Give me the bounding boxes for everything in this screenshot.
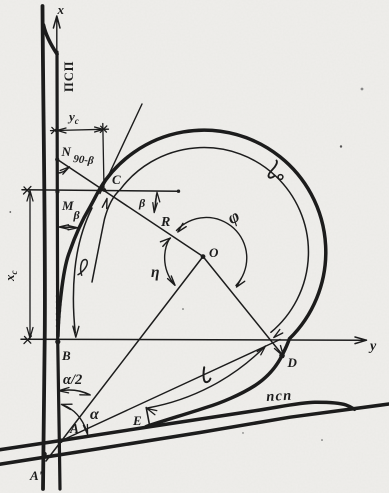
node O	[201, 254, 206, 259]
svg-text:α/2: α/2	[63, 372, 82, 388]
svg-text:O: O	[209, 245, 219, 260]
angle arc phi around O	[177, 217, 247, 285]
dimension yc: horizontal line + ticks	[51, 126, 109, 134]
svg-text:псп: псп	[266, 388, 293, 405]
wire: vertical track line V2 (x-axis track)	[57, 52, 60, 489]
node dots	[42, 157, 284, 456]
dimension arc L between E and D	[148, 346, 266, 408]
node A'	[42, 452, 46, 456]
angle arc 90-beta at N	[58, 167, 69, 173]
svg-text:R: R	[160, 215, 170, 230]
tangent line at C (steep)	[100, 104, 142, 194]
node D	[279, 353, 285, 359]
y axis	[21, 336, 367, 344]
dimension xc: vertical line + arrows	[27, 191, 33, 339]
guide line C up to yc dimension	[103, 124, 104, 190]
svg-text:β: β	[138, 196, 146, 210]
svg-text:C: C	[112, 172, 121, 187]
svg-text:ПСП: ПСП	[62, 61, 76, 92]
beta double arrow at C (between horizontal and R line)	[155, 195, 157, 211]
scan specks	[9, 88, 363, 441]
horizontal line through M and C	[22, 190, 179, 191]
radius line O-D with arrow at D	[203, 257, 283, 356]
dimension arc l: along left part of loop from C to B	[73, 208, 92, 333]
tick at E	[146, 408, 150, 427]
node N	[55, 157, 59, 161]
node C	[102, 188, 106, 192]
svg-text:α: α	[90, 406, 100, 423]
svg-text:D: D	[287, 355, 298, 370]
cursive l label on left arc	[78, 260, 88, 276]
svg-text:B: B	[61, 348, 71, 363]
label L (hand-drawn) on the E-D dimension	[204, 367, 211, 382]
radius line N-C-O	[57, 159, 203, 256]
angle arc alpha/2 at A	[60, 390, 90, 394]
node B	[55, 339, 60, 344]
chord line A-D	[59, 340, 280, 442]
node A	[58, 438, 63, 443]
svg-text:M: M	[61, 198, 74, 213]
node M	[55, 190, 59, 194]
dimension arc L0: inner thin circle with arrowheads	[92, 148, 308, 333]
svg-text:β: β	[73, 208, 81, 222]
wire: vertical track line V1 (left rail ПСП vertical)	[43, 6, 45, 489]
lower straight rail ПСП	[0, 404, 389, 465]
svg-text:A: A	[69, 421, 79, 436]
svg-text:y: y	[368, 339, 377, 354]
line O-A	[46, 257, 203, 462]
loop track: big thick curve B-C-top-D-E	[58, 130, 326, 426]
wire: branch curve joining V1 to V2 at top	[44, 25, 58, 54]
upper straight rail through A and E	[0, 402, 355, 450]
label Lo (hand-drawn cursive) on the inner arc	[268, 161, 276, 178]
svg-text:90-β: 90-β	[73, 153, 95, 167]
svg-text:N: N	[61, 144, 72, 159]
svg-text:A': A'	[29, 468, 43, 483]
x axis arrow	[53, 16, 60, 50]
svg-text:E: E	[132, 413, 142, 428]
svg-text:η: η	[151, 264, 160, 281]
hatch squiggle where loop curve merges with V2 near B	[57, 296, 62, 332]
angle arc eta at O	[165, 239, 175, 285]
svg-text:x: x	[57, 2, 65, 17]
angle arc alpha at A	[62, 405, 87, 433]
beta double arrow at M (between V2 and loop curve)	[61, 226, 76, 229]
